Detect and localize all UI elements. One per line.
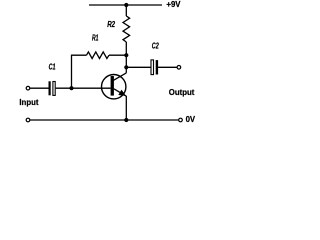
- svg-text:C1: C1: [49, 63, 56, 72]
- wire R1 right lead: [109, 54, 126, 56]
- resistor R1: [87, 52, 110, 59]
- transistor Q1 collector diagonal: [114, 73, 127, 80]
- node: junction dot emitter/0V: [124, 118, 128, 122]
- svg-text:0V: 0V: [186, 115, 196, 124]
- transistor Q1 circle: [102, 75, 126, 99]
- svg-text:Input: Input: [19, 98, 38, 107]
- transistor Q1 emitter arrowhead: [118, 90, 126, 96]
- transistor Q1 emitter diagonal: [114, 89, 126, 96]
- resistor R2: [123, 16, 130, 42]
- wire input to C1: [30, 87, 49, 89]
- terminal: Output: [177, 66, 181, 70]
- node: junction dot top rail / R2: [124, 3, 128, 7]
- svg-text:+9V: +9V: [166, 0, 181, 9]
- wire C1 to base: [56, 87, 111, 89]
- terminal: bottom right: [179, 118, 183, 122]
- wire C2 to output terminal: [158, 66, 177, 68]
- node: junction dot C2 tap: [124, 65, 128, 69]
- wire R2 bottom lead / collector line: [125, 42, 127, 73]
- +9V supply rail: [89, 4, 162, 6]
- svg-text:R1: R1: [92, 33, 98, 42]
- wire C2 tap to C2: [126, 66, 150, 68]
- wire R1 left leads (corner from base node up): [72, 55, 87, 88]
- terminal: Input: [26, 86, 30, 90]
- wire R2 top lead: [125, 5, 127, 16]
- svg-text:Output: Output: [169, 88, 195, 97]
- node: junction dot R1-R2-collector: [124, 53, 128, 57]
- svg-text:C2: C2: [152, 42, 159, 51]
- svg-text:R2: R2: [107, 20, 115, 29]
- capacitor C2: [151, 60, 154, 75]
- transistor Q1 base bar: [111, 76, 114, 96]
- wire emitter to 0V rail: [125, 96, 127, 120]
- capacitor C1: [49, 81, 51, 95]
- node: junction dot base/C1/R1: [69, 86, 73, 90]
- 0V rail: [30, 119, 179, 121]
- terminal: bottom left: [26, 118, 30, 122]
